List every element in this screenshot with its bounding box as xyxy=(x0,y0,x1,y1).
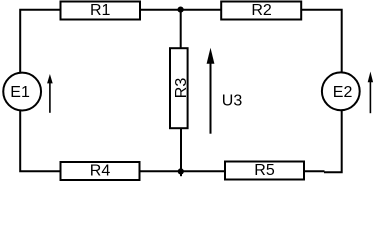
resistor R3 xyxy=(170,48,190,128)
svg-text:E2: E2 xyxy=(333,84,353,101)
wire: R2 right to E2 top (top-right corner + right rail) xyxy=(302,10,342,73)
resistor R4 xyxy=(61,162,140,180)
resistor R5 xyxy=(225,162,304,180)
arrow U3 (voltage across R3) xyxy=(207,48,215,134)
svg-text:U3: U3 xyxy=(222,93,243,110)
arrow of E1 (current direction) xyxy=(47,74,53,113)
svg-text:E1: E1 xyxy=(10,84,30,101)
wire: top node down to R3 top xyxy=(180,10,182,49)
svg-text:R2: R2 xyxy=(251,2,272,19)
arrow of E2 (current direction) xyxy=(368,72,373,114)
svg-text:R5: R5 xyxy=(254,162,275,179)
svg-text:R4: R4 xyxy=(90,162,111,179)
wire: R4 right to R5 left through bottom node xyxy=(140,170,226,172)
wire: R5 right to E2 bottom (bottom-right corner + right rail, small jog) xyxy=(304,111,342,174)
source E2 xyxy=(322,72,360,110)
wire: R1 right to R2 left through top node xyxy=(140,9,221,11)
wire: R3 bottom to bottom node (with stub past dot) xyxy=(180,129,182,177)
node A (top junction dot) xyxy=(178,7,184,13)
resistor R2 xyxy=(221,2,301,20)
wire: E1 top to R1 left (left rail + top-left corner) xyxy=(20,10,60,73)
svg-text:R1: R1 xyxy=(90,2,111,19)
resistor R1 xyxy=(61,2,141,20)
wire: E1 bottom to R4 left (left rail + bottom-left corner) xyxy=(20,111,60,172)
node B (bottom junction dot) xyxy=(178,168,184,174)
source E1 xyxy=(3,73,41,111)
svg-text:R3: R3 xyxy=(173,78,190,99)
